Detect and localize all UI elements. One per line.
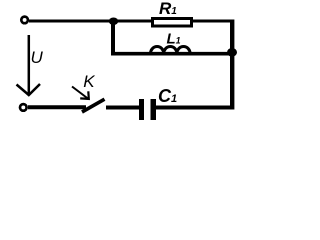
svg-text:K: K (83, 72, 95, 91)
svg-text:U: U (31, 48, 44, 67)
